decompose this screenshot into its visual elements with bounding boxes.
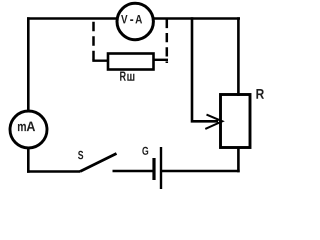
dashed connector left [92,22,95,61]
switch S blade [80,154,117,172]
meter mA label [18,124,26,131]
shunt resistor Rsh body [108,54,154,70]
meter V-A circle [117,3,153,39]
wire wiper arm [192,17,218,121]
battery G label [142,147,148,155]
wire bottom middle [113,170,153,173]
resistor R body [221,95,251,148]
shunt resistor right lead [153,59,169,61]
wire top horizontal [27,17,240,20]
meter V-A label [121,15,127,23]
meter mA circle [10,111,47,148]
shunt resistor left lead [92,60,109,62]
wire bottom right [162,170,240,173]
wire right vertical upper [237,17,240,96]
dashed connector right [166,19,169,63]
wire right vertical lower [237,146,240,172]
switch S label [78,151,83,160]
shunt resistor Rsh label [120,72,126,81]
wire left vertical lower [27,147,30,173]
wiper arrowhead [205,115,222,129]
resistor R label [256,89,264,99]
wire bottom left [27,170,80,173]
battery G short plate [152,158,155,180]
wire left vertical [27,17,30,112]
battery G long plate [160,147,162,189]
